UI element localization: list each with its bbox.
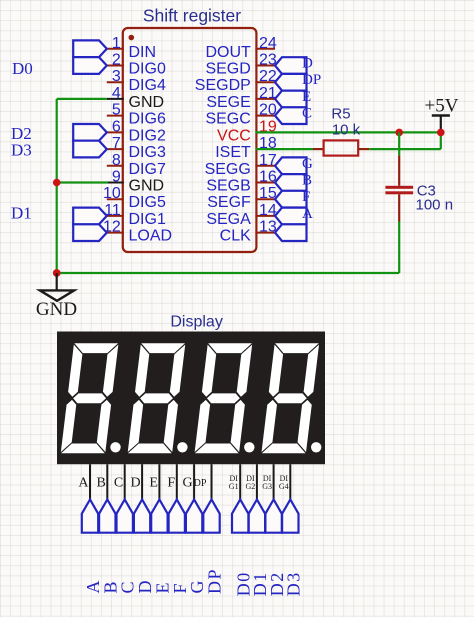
svg-text:DIG4: DIG4 — [129, 77, 166, 94]
svg-text:9: 9 — [112, 169, 121, 186]
svg-text:DOUT: DOUT — [205, 44, 251, 61]
svg-text:A: A — [302, 206, 313, 222]
svg-text:DIG5: DIG5 — [129, 194, 166, 211]
svg-text:10: 10 — [103, 185, 121, 202]
svg-text:DP: DP — [194, 478, 207, 489]
svg-text:24: 24 — [259, 35, 277, 52]
svg-text:Shift register: Shift register — [143, 6, 241, 26]
svg-text:D3: D3 — [11, 140, 32, 159]
svg-text:3: 3 — [112, 68, 121, 85]
svg-text:F: F — [167, 476, 175, 491]
svg-text:+5V: +5V — [425, 96, 459, 117]
svg-text:D: D — [130, 476, 140, 491]
svg-text:G4: G4 — [279, 482, 289, 491]
svg-text:G: G — [182, 476, 192, 491]
svg-text:SEGA: SEGA — [206, 211, 251, 228]
svg-text:SEGDP: SEGDP — [195, 77, 251, 94]
svg-text:10 k: 10 k — [332, 122, 361, 139]
svg-text:DP: DP — [205, 568, 225, 594]
svg-text:DIG3: DIG3 — [129, 144, 166, 161]
svg-text:DIG6: DIG6 — [129, 111, 166, 128]
svg-text:F: F — [302, 189, 310, 205]
svg-text:8: 8 — [112, 152, 121, 169]
svg-text:100 n: 100 n — [416, 196, 454, 213]
svg-text:A: A — [78, 476, 89, 491]
svg-text:5: 5 — [112, 102, 121, 119]
svg-text:SEGD: SEGD — [205, 61, 250, 78]
svg-text:DIG2: DIG2 — [129, 127, 166, 144]
svg-text:SEGE: SEGE — [206, 94, 250, 111]
svg-text:G2: G2 — [246, 482, 256, 491]
svg-text:DIG0: DIG0 — [129, 61, 166, 78]
svg-text:B: B — [96, 476, 105, 491]
svg-text:D: D — [302, 56, 313, 72]
svg-text:1: 1 — [112, 35, 121, 52]
svg-text:GND: GND — [36, 299, 77, 320]
svg-text:SEGC: SEGC — [205, 111, 250, 128]
svg-text:SEGF: SEGF — [207, 194, 251, 211]
svg-text:SEGB: SEGB — [206, 178, 250, 195]
svg-text:C: C — [114, 476, 123, 491]
svg-text:VCC: VCC — [217, 127, 251, 144]
svg-text:DIG7: DIG7 — [129, 161, 166, 178]
svg-text:E: E — [302, 89, 311, 105]
svg-text:SEGG: SEGG — [205, 161, 251, 178]
svg-text:B: B — [302, 173, 312, 189]
svg-text:D0: D0 — [12, 59, 33, 78]
svg-text:R5: R5 — [331, 106, 350, 123]
svg-text:C: C — [302, 106, 312, 122]
svg-text:Display: Display — [170, 314, 222, 331]
svg-text:2: 2 — [112, 52, 121, 69]
svg-text:GND: GND — [129, 178, 165, 195]
svg-text:DIN: DIN — [129, 44, 157, 61]
svg-text:ISET: ISET — [215, 144, 251, 161]
svg-text:6: 6 — [112, 118, 121, 135]
svg-text:D3: D3 — [284, 571, 304, 596]
svg-text:DP: DP — [302, 72, 321, 88]
svg-text:4: 4 — [112, 85, 121, 102]
svg-text:DIG1: DIG1 — [129, 211, 166, 228]
svg-text:E: E — [149, 476, 158, 491]
svg-text:GND: GND — [129, 94, 165, 111]
svg-text:7: 7 — [112, 135, 121, 152]
svg-text:LOAD: LOAD — [129, 228, 173, 245]
svg-text:G: G — [302, 156, 313, 172]
svg-text:G1: G1 — [229, 482, 239, 491]
svg-text:D1: D1 — [11, 203, 32, 222]
svg-text:G3: G3 — [262, 482, 272, 491]
svg-text:CLK: CLK — [220, 228, 251, 245]
